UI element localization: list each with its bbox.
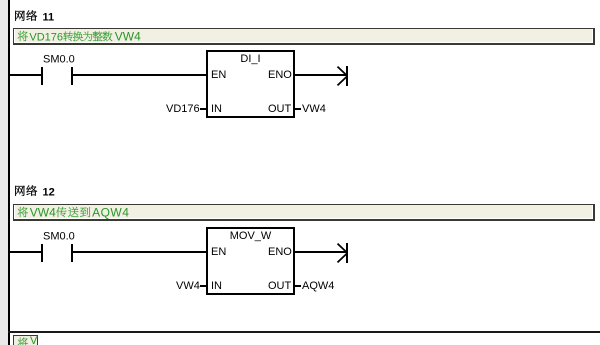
svg-text:DI_I: DI_I — [240, 53, 260, 65]
pin OUT — [268, 281, 298, 293]
pin IN — [211, 104, 241, 116]
pin dash OUT — [295, 285, 301, 287]
svg-text:AQW4: AQW4 — [302, 280, 334, 292]
svg-text:11: 11 — [42, 11, 54, 23]
network 11 header — [14, 4, 74, 24]
operand VD176 — [166, 104, 206, 116]
pin dash IN — [200, 285, 206, 287]
pin ENO — [268, 247, 298, 259]
contact SM0.0 — [10, 74, 41, 76]
svg-text:VD176: VD176 — [166, 103, 200, 115]
rung continuation arrow — [334, 64, 352, 88]
operand AQW4 — [302, 281, 342, 293]
wire to box — [73, 74, 206, 76]
svg-text:AQW4: AQW4 — [92, 205, 129, 219]
network 11 comment bar — [13, 28, 595, 45]
box title MOV_W — [206, 231, 295, 243]
pin ENO — [268, 70, 298, 82]
svg-text:SM0.0: SM0.0 — [43, 54, 75, 66]
svg-text:SM0.0: SM0.0 — [43, 231, 75, 243]
power rail — [8, 0, 10, 345]
contact SM0.0 — [10, 251, 41, 253]
network 12 header — [14, 179, 74, 199]
svg-text:VW4: VW4 — [176, 280, 200, 292]
svg-text:VW4: VW4 — [302, 103, 326, 115]
svg-text:OUT: OUT — [268, 103, 292, 115]
svg-text:VW4: VW4 — [115, 29, 141, 43]
operand VW4 — [176, 281, 216, 293]
svg-text:OUT: OUT — [268, 280, 292, 292]
pin EN — [211, 70, 241, 82]
box DI_I — [206, 50, 295, 118]
svg-text:VW: VW — [30, 335, 38, 345]
svg-text:EN: EN — [211, 246, 226, 258]
svg-text:VW4: VW4 — [30, 205, 56, 219]
svg-text:VD176: VD176 — [29, 31, 63, 43]
wire ENO to arrow — [295, 74, 346, 76]
next network comment bar stub (remnant) — [13, 335, 38, 345]
wire to box — [73, 251, 206, 253]
network 11 comment text — [17, 28, 157, 44]
svg-text:EN: EN — [211, 69, 226, 81]
svg-text:12: 12 — [42, 186, 54, 198]
operand VW4 — [302, 104, 342, 116]
pin dash OUT — [295, 108, 301, 110]
left margin strip — [0, 0, 8, 345]
pin EN — [211, 247, 241, 259]
svg-text:ENO: ENO — [268, 69, 292, 81]
network 12 comment text — [17, 204, 157, 220]
box MOV_W — [206, 227, 295, 295]
contact label SM0.0 — [43, 54, 83, 66]
rung continuation arrow — [334, 241, 352, 265]
svg-text:ENO: ENO — [268, 246, 292, 258]
pin OUT — [268, 104, 298, 116]
box title DI_I — [206, 54, 295, 66]
svg-text:MOV_W: MOV_W — [230, 230, 272, 242]
pin IN — [211, 281, 241, 293]
separator line (remnant) — [8, 331, 600, 333]
pin dash IN — [200, 108, 206, 110]
svg-text:IN: IN — [211, 103, 222, 115]
wire ENO to arrow — [295, 251, 346, 253]
contact label SM0.0 — [43, 231, 83, 243]
network 12 comment bar — [13, 204, 595, 221]
